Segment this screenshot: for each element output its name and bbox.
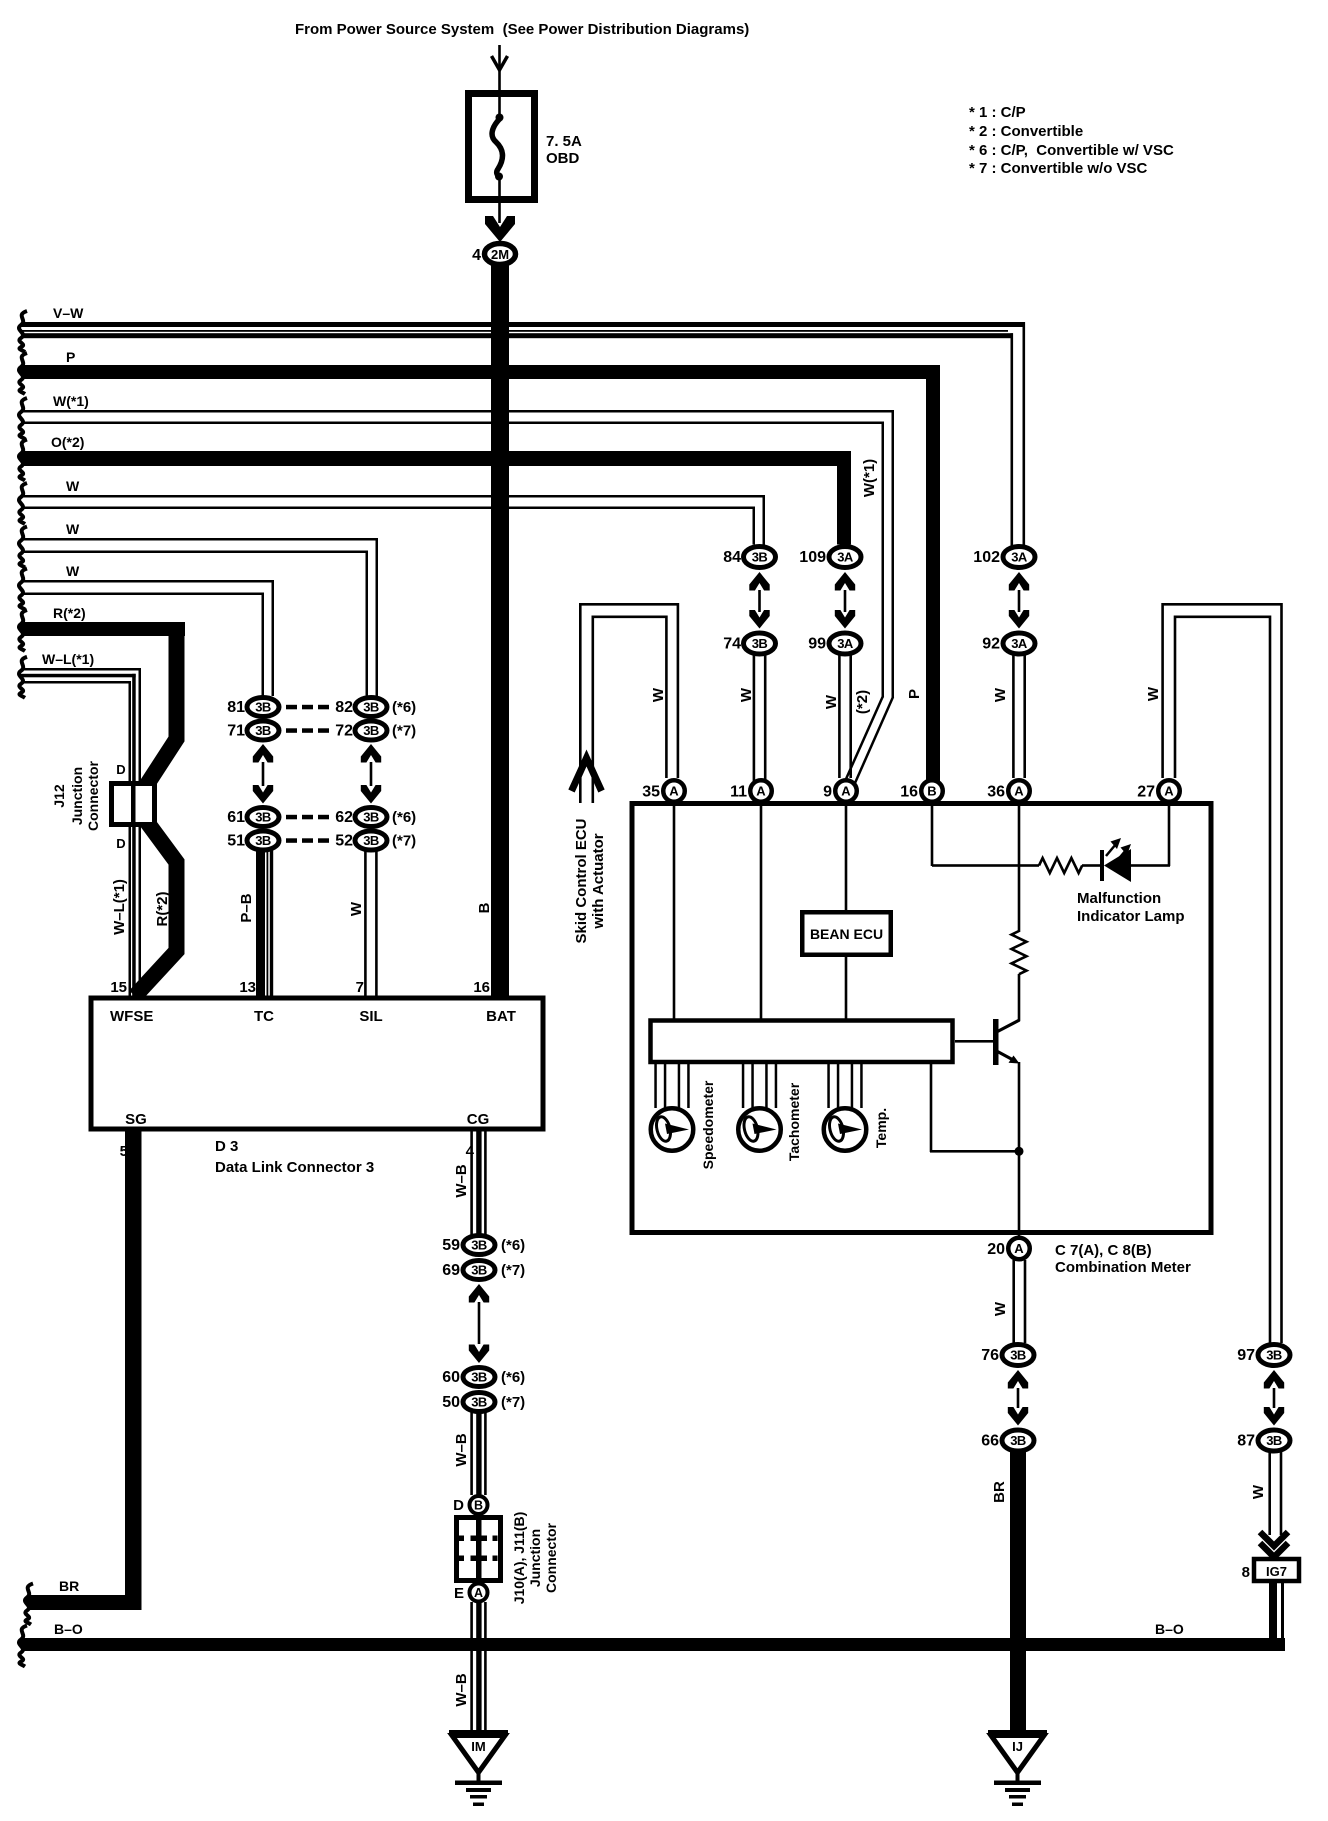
wire fuse to connector 2M <box>498 203 501 223</box>
svg-text:(*6): (*6) <box>501 1369 525 1386</box>
wire junction to 20A <box>1018 1151 1021 1236</box>
svg-text:P: P <box>66 349 75 365</box>
LED cathode bar <box>1100 850 1104 881</box>
svg-text:3A: 3A <box>837 550 854 565</box>
svg-text:16: 16 <box>900 784 918 801</box>
svg-text:84: 84 <box>723 549 741 566</box>
svg-text:From Power Source System (See: From Power Source System (See Power Dist… <box>295 21 749 38</box>
wire W-B from 50 down to D(B) <box>470 1412 473 1495</box>
ground IM <box>449 1730 508 1736</box>
svg-text:Skid Control ECU: Skid Control ECU <box>573 818 590 943</box>
connector 69 (3B) <box>463 1261 495 1280</box>
mating arrows 69-60 <box>469 1284 489 1303</box>
svg-text:3B: 3B <box>471 1395 487 1410</box>
mating arrows between 72 and 62 <box>361 744 381 763</box>
svg-text:(*7): (*7) <box>501 1262 525 1279</box>
wire W (to 81) top line <box>21 580 274 583</box>
svg-text:J10(A), J11(B): J10(A), J11(B) <box>511 1512 527 1605</box>
svg-text:35: 35 <box>642 784 660 801</box>
svg-text:D: D <box>453 1497 464 1514</box>
svg-text:3B: 3B <box>363 700 379 715</box>
svg-text:W–B: W–B <box>453 1673 470 1707</box>
gauge wires (Tachometer) <box>742 1062 745 1108</box>
svg-text:W(*1): W(*1) <box>861 459 878 497</box>
svg-text:CG: CG <box>467 1111 490 1128</box>
svg-text:A: A <box>756 784 766 799</box>
svg-text:9: 9 <box>823 784 832 801</box>
wire 9A down to BEAN ECU <box>845 802 848 911</box>
dashes 51-52 <box>286 838 297 843</box>
svg-text:61: 61 <box>227 809 245 826</box>
resistor R2 (vertical) <box>1012 931 1027 974</box>
terminal D (B) circle <box>470 1496 488 1514</box>
svg-text:SG: SG <box>125 1111 147 1128</box>
svg-text:D: D <box>116 836 125 851</box>
wire resistor to transistor collector <box>1018 974 1021 1021</box>
wire W below 87 <box>1268 1450 1271 1535</box>
connector 82 (3B) <box>355 698 387 717</box>
svg-text:* 1 : C/P: * 1 : C/P <box>969 104 1026 121</box>
terminal 35 (A) <box>663 780 685 802</box>
emitter arrowhead <box>1009 1056 1020 1064</box>
transistor emitter lead <box>998 1052 1017 1062</box>
wire W (to 81) vertical left <box>262 593 265 697</box>
svg-text:A: A <box>669 784 679 799</box>
connector 50 (3B) <box>463 1393 495 1412</box>
svg-text:W: W <box>992 1301 1009 1316</box>
terminal E (A) circle <box>470 1584 488 1602</box>
connector 84 (3B) <box>744 547 776 568</box>
svg-text:4: 4 <box>472 247 481 264</box>
BEAN ECU box <box>802 912 891 955</box>
dashes 71-72 <box>286 728 297 733</box>
terminal 20 (A) <box>1008 1238 1030 1260</box>
svg-text:Malfunction: Malfunction <box>1077 890 1161 907</box>
svg-text:(*2): (*2) <box>854 690 871 714</box>
svg-text:11: 11 <box>730 784 747 801</box>
svg-text:A: A <box>1014 1241 1024 1256</box>
svg-text:3B: 3B <box>1010 1433 1026 1448</box>
dashes 61-62 <box>286 815 297 820</box>
connector 87 (3B) <box>1258 1430 1290 1451</box>
svg-text:B: B <box>927 784 936 799</box>
wire P corner down to 16B <box>926 365 940 782</box>
svg-text:3A: 3A <box>1011 636 1028 651</box>
svg-text:27: 27 <box>1137 784 1155 801</box>
svg-text:A: A <box>841 784 851 799</box>
svg-text:74: 74 <box>723 636 741 653</box>
wire from 99 to 9A <box>838 655 841 778</box>
squiggle end R(*2) <box>19 610 27 651</box>
ground IJ <box>988 1730 1047 1736</box>
wire W(*1) diagonal into 9A left <box>846 696 883 779</box>
svg-text:Combination Meter: Combination Meter <box>1055 1259 1191 1276</box>
svg-text:A: A <box>474 1586 483 1600</box>
D3 Data Link Connector 3 box <box>91 998 543 1129</box>
svg-text:3B: 3B <box>255 700 271 715</box>
mating arrows 76-66 <box>1008 1370 1028 1389</box>
svg-text:Junction: Junction <box>527 1529 543 1587</box>
fuse element bottom dot <box>495 173 503 181</box>
mating arrows 84-74 <box>749 572 769 591</box>
svg-text:(*6): (*6) <box>501 1237 525 1254</box>
svg-text:Indicator Lamp: Indicator Lamp <box>1077 908 1185 925</box>
squiggle end O(*2) <box>19 440 27 481</box>
svg-text:16: 16 <box>473 979 490 996</box>
terminal 9 (A) <box>835 780 857 802</box>
transistor collector lead <box>998 1020 1020 1032</box>
svg-text:3B: 3B <box>752 550 768 565</box>
svg-text:W: W <box>1145 686 1162 701</box>
svg-text:* 2 : Convertible: * 2 : Convertible <box>969 123 1083 140</box>
svg-text:62: 62 <box>335 809 353 826</box>
svg-text:BR: BR <box>59 1578 79 1594</box>
wire resistor to LED <box>1082 864 1101 867</box>
wire BR from 66 to IJ ground <box>1010 1450 1026 1730</box>
svg-text:Temp.: Temp. <box>873 1108 889 1148</box>
wire 36A down to resistor <box>1018 802 1021 932</box>
squiggle end W(*1) <box>19 398 27 439</box>
svg-text:Connector: Connector <box>543 1522 559 1593</box>
svg-text:3B: 3B <box>1010 1348 1026 1363</box>
wire W (to 84) vertical left <box>753 507 756 545</box>
junction connector J12 box <box>112 784 155 825</box>
wire V-W horizontal (top band) <box>21 322 1025 327</box>
gauge wires (Speedometer) <box>654 1062 657 1108</box>
mating arrows 102-92 <box>1009 572 1029 591</box>
svg-text:66: 66 <box>981 1433 999 1450</box>
fat arrow into 2M <box>485 216 515 242</box>
connector 97 (3B) <box>1258 1345 1290 1366</box>
svg-text:IG7: IG7 <box>1266 1564 1287 1579</box>
wire O(*2) corner down to 109 <box>837 451 851 545</box>
fuse F1 7.5A OBD box <box>469 94 535 200</box>
connector 76 (3B) <box>1002 1345 1034 1366</box>
wire R(*2) vertical+diagonal above J12 <box>146 629 177 786</box>
wire 35A down to gauge driver <box>673 802 676 1019</box>
wire W (to 82) top line <box>21 538 378 541</box>
svg-text:81: 81 <box>227 699 245 716</box>
wire W(*1) vertical left <box>882 422 885 698</box>
wire W-L(*1) line3 <box>21 681 131 684</box>
svg-text:Junction: Junction <box>69 767 85 825</box>
wire B-O from IG7 down <box>1269 1583 1277 1638</box>
squiggle end V-W <box>19 311 27 352</box>
junction connector J10/J11 box <box>457 1518 501 1581</box>
svg-text:W: W <box>66 478 80 494</box>
svg-text:3B: 3B <box>1266 1348 1282 1363</box>
svg-text:3A: 3A <box>1011 550 1028 565</box>
svg-text:W: W <box>66 521 80 537</box>
svg-text:Tachometer: Tachometer <box>786 1082 802 1161</box>
J10 box divider <box>476 1518 482 1581</box>
svg-text:A: A <box>1164 784 1174 799</box>
svg-text:TC: TC <box>254 1008 274 1025</box>
svg-text:15: 15 <box>110 979 127 996</box>
svg-text:P: P <box>906 689 923 699</box>
svg-text:51: 51 <box>227 833 245 850</box>
svg-text:W: W <box>992 687 1009 702</box>
svg-text:SIL: SIL <box>359 1008 382 1025</box>
svg-text:D: D <box>116 762 125 777</box>
wire W-B from CG down <box>470 1131 473 1235</box>
terminal 36 (A) <box>1008 780 1030 802</box>
svg-text:3B: 3B <box>471 1263 487 1278</box>
svg-text:60: 60 <box>442 1369 460 1386</box>
svg-text:W(*1): W(*1) <box>53 393 89 409</box>
connector 59 (3B) <box>463 1236 495 1255</box>
wire BR from SG down and left <box>125 1131 142 1610</box>
svg-text:B: B <box>474 1499 483 1513</box>
gauge Speedometer <box>651 1108 694 1151</box>
svg-text:92: 92 <box>982 636 1000 653</box>
svg-text:(*6): (*6) <box>392 809 416 826</box>
wire W (to 84) vertical right <box>763 495 766 545</box>
svg-text:(*6): (*6) <box>392 699 416 716</box>
svg-text:2M: 2M <box>491 247 509 262</box>
svg-text:3B: 3B <box>255 723 271 738</box>
combination meter box <box>632 804 1211 1233</box>
skid control loop wire inner <box>593 617 667 803</box>
wire from power source into fuse <box>498 45 501 90</box>
fuse element top dot <box>496 114 504 122</box>
wire W (to 84) bottom line <box>21 507 755 510</box>
mating arrows 97-87 <box>1264 1370 1284 1389</box>
svg-text:3B: 3B <box>255 810 271 825</box>
squiggle end W-L(*1) <box>19 657 27 698</box>
wire W (to 82) bottom line <box>21 551 368 554</box>
wire R(*2) thick horizontal <box>21 622 185 636</box>
svg-text:4: 4 <box>466 1143 475 1160</box>
svg-text:B: B <box>476 902 493 913</box>
wire W-B from E(A) down to IM ground <box>470 1602 473 1730</box>
gauge driver long box <box>651 1021 953 1063</box>
squiggle end P <box>19 353 27 394</box>
svg-text:7: 7 <box>356 979 364 996</box>
svg-text:W–B: W–B <box>453 1433 470 1467</box>
wire P-B from 51 to TC <box>256 850 265 996</box>
svg-text:(*7): (*7) <box>501 1394 525 1411</box>
wire B-O horizontal thick <box>21 1638 1285 1651</box>
connector 52 (3B) <box>355 831 387 850</box>
svg-text:A: A <box>1014 784 1024 799</box>
wire V-W center stripe <box>21 330 1008 332</box>
svg-text:P–B: P–B <box>238 893 255 922</box>
wire W(*1) diagonal into 9A right <box>855 697 893 783</box>
LED light arrow 1 <box>1106 844 1116 856</box>
right loop wire inner <box>1175 617 1270 1343</box>
svg-text:3B: 3B <box>363 833 379 848</box>
wire 11A down to gauge driver <box>760 802 763 1019</box>
connector 66 (3B) <box>1002 1430 1034 1451</box>
arrowhead on power feed wire <box>492 56 508 70</box>
wire W-L(*1) line1 <box>21 668 141 671</box>
svg-text:W: W <box>348 901 365 916</box>
svg-text:59: 59 <box>442 1237 460 1254</box>
svg-text:* 6 : C/P, Convertible w/ VSC: * 6 : C/P, Convertible w/ VSC <box>969 142 1174 159</box>
svg-text:(*7): (*7) <box>392 723 416 740</box>
wire W(*1) bottom line <box>21 422 884 425</box>
svg-text:3B: 3B <box>752 636 768 651</box>
J10 box contact nubs <box>459 1536 464 1542</box>
fuse element wire top <box>498 96 501 116</box>
wire R(*2) diagonal+vertical below J12 to WFSE <box>135 822 177 996</box>
wire B (battery) thick: 2M down to DLC3 BAT <box>491 264 509 996</box>
wire W-L(*1) line2 (stripe) <box>21 674 136 678</box>
wire W below 20A <box>1012 1260 1015 1343</box>
transistor base lead from gauge driver <box>955 1040 993 1043</box>
svg-text:69: 69 <box>442 1262 460 1279</box>
svg-text:IJ: IJ <box>1012 1739 1023 1754</box>
svg-text:W: W <box>650 687 667 702</box>
MIL horizontal wire <box>932 864 1039 867</box>
wire W (to 82) vertical left <box>366 551 369 697</box>
transistor Q1 base bar <box>993 1019 999 1065</box>
svg-text:O(*2): O(*2) <box>51 434 84 450</box>
gauge wires (Temp.) <box>827 1062 830 1108</box>
mating arrows between 71 and 61 <box>253 744 273 763</box>
fuse element S-curve <box>492 119 502 176</box>
svg-text:IM: IM <box>471 1739 485 1754</box>
svg-text:102: 102 <box>973 549 1000 566</box>
svg-text:W–L(*1): W–L(*1) <box>42 651 94 667</box>
wire W(*1) vertical right <box>892 410 895 698</box>
svg-text:3B: 3B <box>1266 1433 1282 1448</box>
svg-text:W–B: W–B <box>453 1164 470 1198</box>
wire V-W bottom band <box>21 333 1013 338</box>
svg-text:R(*2): R(*2) <box>53 605 86 621</box>
svg-text:D 3: D 3 <box>215 1138 238 1155</box>
wire gauge driver bottom to junction <box>930 1062 933 1152</box>
wire W(*1) top line <box>21 410 894 413</box>
svg-text:with Actuator: with Actuator <box>590 833 607 929</box>
svg-text:36: 36 <box>987 784 1005 801</box>
squiggle end BR <box>25 1584 33 1625</box>
svg-text:WFSE: WFSE <box>110 1008 153 1025</box>
svg-text:3B: 3B <box>363 810 379 825</box>
connector 60 (3B) <box>463 1368 495 1387</box>
connector 72 (3B) <box>355 721 387 740</box>
svg-text:W–L(*1): W–L(*1) <box>111 879 128 935</box>
svg-text:13: 13 <box>239 979 256 996</box>
squiggle end W2 <box>19 527 27 568</box>
wire W (to 81) bottom line <box>21 593 264 596</box>
svg-text:J12: J12 <box>51 784 67 808</box>
svg-text:8: 8 <box>1242 1564 1250 1581</box>
connector 102 (3A) <box>1003 547 1035 568</box>
svg-text:97: 97 <box>1237 1347 1255 1364</box>
dashes 81-82 <box>286 705 297 710</box>
arrow to skid control ECU <box>572 758 602 791</box>
svg-text:W: W <box>1250 1484 1267 1499</box>
svg-text:87: 87 <box>1237 1433 1255 1450</box>
wire V-W corner down to 102 (right line) <box>1023 322 1026 546</box>
svg-text:20: 20 <box>987 1241 1005 1258</box>
wire W from 74 down to 11A <box>753 655 756 802</box>
svg-text:BAT: BAT <box>486 1008 516 1025</box>
LED triangle <box>1104 849 1131 882</box>
svg-text:3B: 3B <box>363 723 379 738</box>
junction node dot <box>1015 1147 1024 1156</box>
svg-text:B–O: B–O <box>54 1621 83 1637</box>
double chevron arrow into IG7 <box>1260 1532 1288 1546</box>
svg-text:3B: 3B <box>255 833 271 848</box>
svg-text:Connector: Connector <box>85 760 101 831</box>
LED light arrow 2 <box>1116 850 1126 862</box>
svg-text:3A: 3A <box>837 636 854 651</box>
svg-text:* 7 : Convertible w/o VSC: * 7 : Convertible w/o VSC <box>969 160 1148 177</box>
J12 center divider <box>131 783 136 825</box>
connector 71 (3B) <box>247 721 279 740</box>
svg-text:71: 71 <box>227 723 245 740</box>
wire up to 27A <box>1168 802 1171 866</box>
terminal 27 (A) <box>1158 780 1180 802</box>
svg-text:3B: 3B <box>471 1370 487 1385</box>
svg-text:E: E <box>454 1585 464 1602</box>
svg-text:7. 5A: 7. 5A <box>546 133 582 150</box>
svg-text:W: W <box>738 687 755 702</box>
skid control loop wire outer <box>580 604 678 803</box>
svg-text:99: 99 <box>808 636 826 653</box>
svg-text:BEAN ECU: BEAN ECU <box>810 926 883 942</box>
mating arrows 109-99 <box>835 572 855 591</box>
wire LED to 27A leg <box>1131 864 1170 867</box>
svg-text:82: 82 <box>335 699 353 716</box>
svg-text:W: W <box>66 563 80 579</box>
connector 74 (3B) <box>744 633 776 654</box>
svg-text:W: W <box>823 694 840 709</box>
fuse element wire bottom <box>498 178 501 203</box>
squiggle end B-O <box>19 1626 27 1667</box>
wire P thick horizontal <box>21 365 940 379</box>
squiggle end W3 <box>19 569 27 610</box>
svg-text:(*7): (*7) <box>392 833 416 850</box>
terminal 16 (B) <box>921 780 943 802</box>
svg-text:R(*2): R(*2) <box>154 891 171 926</box>
connector 51 (3B) <box>247 831 279 850</box>
squiggle end W1 <box>19 483 27 524</box>
resistor R (MIL) <box>1039 858 1082 873</box>
wire W (to 82) vertical right <box>376 538 379 696</box>
connector 62 (3B) <box>355 808 387 827</box>
svg-text:Speedometer: Speedometer <box>700 1080 716 1169</box>
svg-text:B–O: B–O <box>1155 1621 1184 1637</box>
wire 16B down <box>931 802 934 866</box>
svg-text:C 7(A), C 8(B): C 7(A), C 8(B) <box>1055 1242 1152 1259</box>
connector 61 (3B) <box>247 808 279 827</box>
svg-text:V–W: V–W <box>53 305 84 321</box>
connector 81 (3B) <box>247 698 279 717</box>
svg-text:Data Link Connector 3: Data Link Connector 3 <box>215 1159 374 1176</box>
wire O(*2) thick horizontal <box>21 451 851 466</box>
connector 2M oval <box>485 244 516 265</box>
svg-text:BR: BR <box>991 1481 1008 1503</box>
wire W-L(*1) vertical lines down to WFSE <box>139 668 142 996</box>
svg-text:72: 72 <box>335 723 353 740</box>
svg-text:50: 50 <box>442 1394 460 1411</box>
connector 99 (3A) <box>829 633 861 654</box>
wire from 92 to 36A <box>1012 655 1015 778</box>
svg-text:3B: 3B <box>471 1238 487 1253</box>
svg-text:52: 52 <box>335 833 353 850</box>
connector 8 IG7 box <box>1254 1559 1299 1581</box>
right loop wire outer (27A to 97) <box>1163 604 1282 1343</box>
wire W (to 84) top line <box>21 495 765 498</box>
gauge Temp. <box>824 1108 867 1151</box>
wire BEAN ECU to gauge driver <box>845 957 848 1019</box>
wire W from 52 to SIL <box>364 850 367 996</box>
connector 92 (3A) <box>1003 633 1035 654</box>
